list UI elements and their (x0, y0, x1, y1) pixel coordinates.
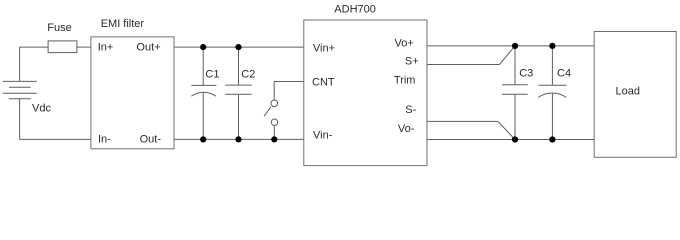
junction dot switch bottom (271, 136, 277, 142)
wire Vo+ rail to Load (427, 45, 594, 47)
svg-text:Vdc: Vdc (32, 103, 51, 115)
wire C2 bottom lead (238, 94, 240, 139)
svg-text:Fuse: Fuse (47, 22, 71, 34)
svg-text:Out-: Out- (140, 134, 162, 146)
capacitor C1 (polarized) (191, 47, 216, 139)
junction dot C4 top (549, 43, 555, 49)
wire C4 bottom lead (551, 93, 553, 139)
junction dot C3 bottom (512, 136, 518, 142)
svg-text:CNT: CNT (312, 76, 335, 88)
wire battery bottom lead (19, 99, 21, 140)
junction dot C2 top (235, 44, 241, 50)
svg-text:C3: C3 (519, 67, 533, 79)
wire C2 top lead (238, 47, 240, 85)
C3 plate top (502, 84, 528, 86)
wire top rail EMI Out+ to ADH700 Vin+ (174, 46, 304, 48)
svg-text:ADH700: ADH700 (334, 4, 376, 16)
svg-text:Vo+: Vo+ (395, 38, 414, 50)
junction dot C4 bottom (549, 136, 555, 142)
wire switch bottom lead (273, 125, 275, 139)
battery plate long (3, 92, 37, 94)
wire C1 top lead (202, 47, 204, 85)
switch lever (264, 107, 271, 116)
capacitor C2 (225, 47, 252, 139)
wire S+ sense (427, 46, 515, 65)
wire C1 bottom lead (202, 93, 204, 140)
svg-text:Vo-: Vo- (398, 123, 415, 135)
capacitor C3 (502, 46, 528, 140)
battery V1 (Vdc source) (3, 47, 37, 139)
load box (594, 32, 676, 158)
C1 straight plate (191, 84, 216, 86)
wire battery top lead (19, 47, 21, 81)
battery plate short bottom (9, 98, 31, 100)
svg-text:EMI filter: EMI filter (101, 18, 145, 30)
wire C3 top lead (514, 46, 516, 85)
junction dot C1 top (200, 44, 206, 50)
switch lower contact (271, 119, 277, 125)
EMI filter box (91, 37, 174, 149)
switch S1 (CNT control) (264, 82, 304, 140)
svg-text:In-: In- (98, 134, 111, 146)
svg-text:Trim: Trim (394, 75, 416, 87)
svg-text:C2: C2 (241, 68, 255, 80)
C2 plate top (225, 84, 252, 86)
wire bottom rail battery to EMI filter In- (20, 138, 91, 140)
wire switch to CNT pin (274, 82, 304, 101)
svg-text:Load: Load (616, 85, 640, 97)
wire top rail battery to fuse (20, 46, 48, 48)
C1 curved plate (191, 92, 215, 96)
C4 straight plate (539, 84, 567, 86)
battery plate long top (3, 80, 37, 82)
fuse F1 body (48, 41, 77, 53)
wire S- sense (427, 121, 515, 139)
wire C3 bottom lead (514, 94, 516, 139)
C4 curved plate (538, 93, 566, 98)
wire C4 top lead (551, 46, 553, 85)
capacitor C4 (polarized) (538, 46, 567, 140)
junction dot C1 bottom (200, 136, 206, 142)
svg-text:Vin+: Vin+ (313, 42, 335, 54)
svg-text:S+: S+ (405, 56, 419, 68)
junction dot C2 bottom (235, 136, 241, 142)
svg-text:In+: In+ (98, 42, 114, 54)
svg-text:Out+: Out+ (136, 42, 160, 54)
junction dot C3 top (512, 43, 518, 49)
switch upper contact (271, 100, 278, 107)
wire Vo- rail to Load (427, 139, 594, 141)
wire fuse to EMI filter In+ (77, 46, 91, 48)
converter U1 ADH700 box (304, 20, 427, 166)
svg-text:C1: C1 (205, 68, 219, 80)
C3 plate bottom (502, 93, 528, 95)
battery plate short (9, 86, 31, 88)
svg-text:Vin-: Vin- (313, 129, 333, 141)
svg-text:C4: C4 (557, 67, 571, 79)
wire bottom rail EMI Out- to ADH700 Vin- (174, 138, 304, 140)
C2 plate bottom (225, 93, 252, 95)
svg-text:S-: S- (405, 104, 416, 116)
